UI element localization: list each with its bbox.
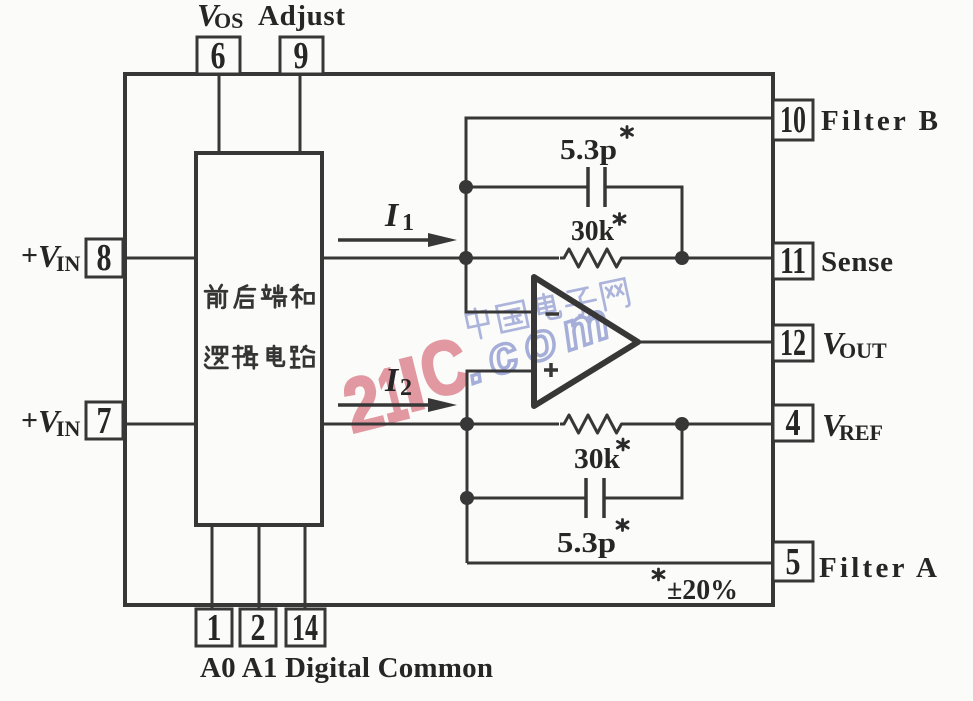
svg-text:30k: 30k	[571, 215, 615, 247]
svg-text:14: 14	[292, 607, 318, 649]
label VOS	[197, 0, 243, 33]
svg-text:5.3p: 5.3p	[557, 527, 616, 559]
wire pin9 to block	[299, 76, 302, 153]
svg-text:+: +	[21, 239, 38, 272]
svg-text:IN: IN	[56, 416, 81, 441]
pin 8 box	[86, 239, 123, 277]
op-amp U1	[534, 277, 638, 406]
wire block to node A (upper)	[323, 257, 559, 260]
pin 9 box	[280, 37, 323, 74]
pin 5 box	[773, 542, 813, 581]
svg-text:I: I	[384, 362, 400, 399]
pin 10 box	[773, 100, 813, 140]
junction node A1	[459, 180, 473, 194]
star for 5.3p top	[622, 127, 633, 138]
svg-text:OS: OS	[214, 8, 243, 33]
star for 5.3p bottom	[617, 520, 628, 531]
label I1	[384, 197, 414, 236]
svg-text:4: 4	[786, 402, 801, 444]
pin 14 box	[286, 609, 325, 646]
junction node A2	[459, 251, 473, 265]
label VREF	[822, 407, 883, 445]
svg-text:±20%: ±20%	[667, 574, 738, 606]
op-amp minus sign	[546, 312, 560, 316]
svg-text:Adjust: Adjust	[258, 0, 345, 32]
svg-text:2: 2	[251, 607, 266, 649]
wire pin14 to block	[304, 525, 307, 608]
svg-text:I: I	[384, 197, 400, 234]
wire pin6 to block	[218, 76, 221, 153]
op-amp plus sign	[544, 363, 558, 377]
block label 逻辑电路	[205, 346, 314, 368]
capacitor C2 plates	[586, 478, 604, 518]
junction node A3	[675, 251, 689, 265]
svg-text:1: 1	[207, 607, 222, 649]
wire noninverting input	[467, 371, 534, 563]
pin 7 box	[86, 402, 123, 439]
svg-text:1: 1	[402, 210, 414, 236]
wire pin2 to block	[258, 525, 261, 608]
svg-text:+: +	[21, 404, 38, 437]
svg-text:REF: REF	[839, 420, 883, 445]
block label 前后端和	[205, 285, 313, 308]
svg-text:5: 5	[786, 541, 801, 583]
svg-text:7: 7	[97, 400, 112, 442]
label +VIN pin 8	[21, 238, 81, 276]
svg-text:2: 2	[400, 375, 412, 401]
wire output to pin12 VOUT	[638, 341, 773, 344]
svg-text:9: 9	[294, 35, 309, 77]
capacitor C1 5.3p leads	[466, 187, 682, 258]
label I2	[384, 362, 412, 401]
arrow I1	[338, 238, 432, 242]
pin 4 box	[773, 405, 813, 441]
svg-text:10: 10	[780, 99, 806, 141]
junction node B2	[675, 417, 689, 431]
arrow I2	[338, 403, 432, 407]
svg-text:Filter B: Filter B	[821, 105, 938, 137]
IC outline	[125, 74, 773, 605]
svg-text:Filter A: Filter A	[819, 552, 937, 584]
star for 30k bottom	[618, 439, 629, 450]
svg-text:5.3p: 5.3p	[560, 134, 617, 166]
wire R2 to pin4 VREF	[621, 423, 773, 426]
svg-text:Sense: Sense	[821, 246, 893, 278]
logic block box	[196, 153, 322, 525]
wire inverting input	[466, 258, 534, 312]
pin 6 box	[197, 37, 240, 74]
svg-text:A0 A1 Digital Common: A0 A1 Digital Common	[200, 652, 493, 684]
svg-text:OUT: OUT	[839, 338, 887, 363]
wire block to node B (lower)	[323, 423, 559, 426]
watermark 21IC	[336, 322, 477, 450]
svg-text:12: 12	[780, 322, 806, 364]
wire R1 to pin11 Sense	[621, 257, 773, 260]
svg-text:8: 8	[97, 237, 112, 279]
capacitor C1 plates	[588, 167, 605, 207]
watermark 中国电子网	[465, 277, 630, 340]
pin 11 box	[773, 243, 813, 279]
svg-text:6: 6	[211, 35, 226, 77]
watermark .com	[457, 289, 625, 395]
wire node A to pin10 Filter B	[466, 118, 773, 312]
wire pin1 to block	[211, 525, 214, 608]
pin 1 box	[196, 609, 232, 646]
label +VIN pin 7	[21, 403, 81, 441]
svg-text:IN: IN	[56, 251, 81, 276]
star for ±20%	[653, 569, 664, 580]
junction node B3	[460, 491, 474, 505]
pin 2 box	[240, 609, 276, 646]
label VOUT	[822, 325, 887, 363]
arrowhead I2	[428, 398, 457, 412]
resistor R1 30k zigzag	[560, 249, 626, 267]
arrowhead I1	[428, 233, 457, 247]
capacitor C2 5.3p leads	[467, 424, 682, 498]
star for 30k top	[614, 214, 625, 225]
pin 12 box	[773, 325, 813, 361]
resistor R2 30k zigzag	[560, 415, 626, 433]
svg-text:30k: 30k	[574, 443, 621, 475]
wire to pin5 Filter A	[467, 562, 773, 565]
wire pin8 to block	[125, 257, 196, 260]
junction node B1	[460, 417, 474, 431]
wire pin7 to block	[125, 423, 196, 426]
svg-text:11: 11	[780, 240, 806, 282]
